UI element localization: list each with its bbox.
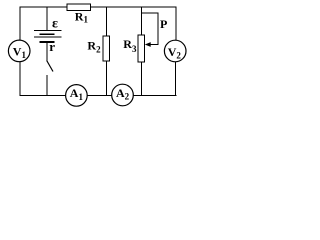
voltmeter V2 [164, 40, 186, 62]
wire top horizontal [20, 6, 177, 8]
wire battery branch upper [46, 7, 48, 30]
svg-text:P: P [160, 17, 167, 31]
wire right lower (V2 to bottom wire) [175, 62, 177, 96]
ammeter A1 [66, 85, 88, 107]
wire R2 branch vertical [105, 7, 107, 96]
ammeter A2 [112, 84, 134, 106]
wire left upper (top wire to V1) [19, 7, 21, 41]
battery plate short 1 [40, 33, 55, 35]
wire wiper P connection [141, 13, 158, 45]
wire left lower (V1 to bottom wire) [19, 62, 21, 96]
wire battery branch middle [46, 43, 48, 61]
battery cell E,r [34, 31, 61, 43]
svg-text:ε: ε [52, 17, 58, 32]
battery plate short 2 [40, 41, 55, 43]
svg-text:r: r [49, 39, 55, 54]
wire right upper (top wire to V2) [175, 7, 177, 41]
wire bottom horizontal [20, 95, 177, 97]
wire R3 branch vertical [140, 7, 142, 96]
battery plate long 2 [34, 36, 61, 38]
resistor R1 box [67, 4, 91, 10]
voltmeter V1 [8, 40, 30, 62]
resistor R3 box [138, 35, 144, 62]
resistor R2 box [103, 36, 110, 61]
switch S blade [47, 61, 53, 72]
wiper arrowhead [145, 42, 151, 47]
battery plate long 1 [34, 30, 61, 32]
wire battery branch lower [46, 75, 48, 96]
